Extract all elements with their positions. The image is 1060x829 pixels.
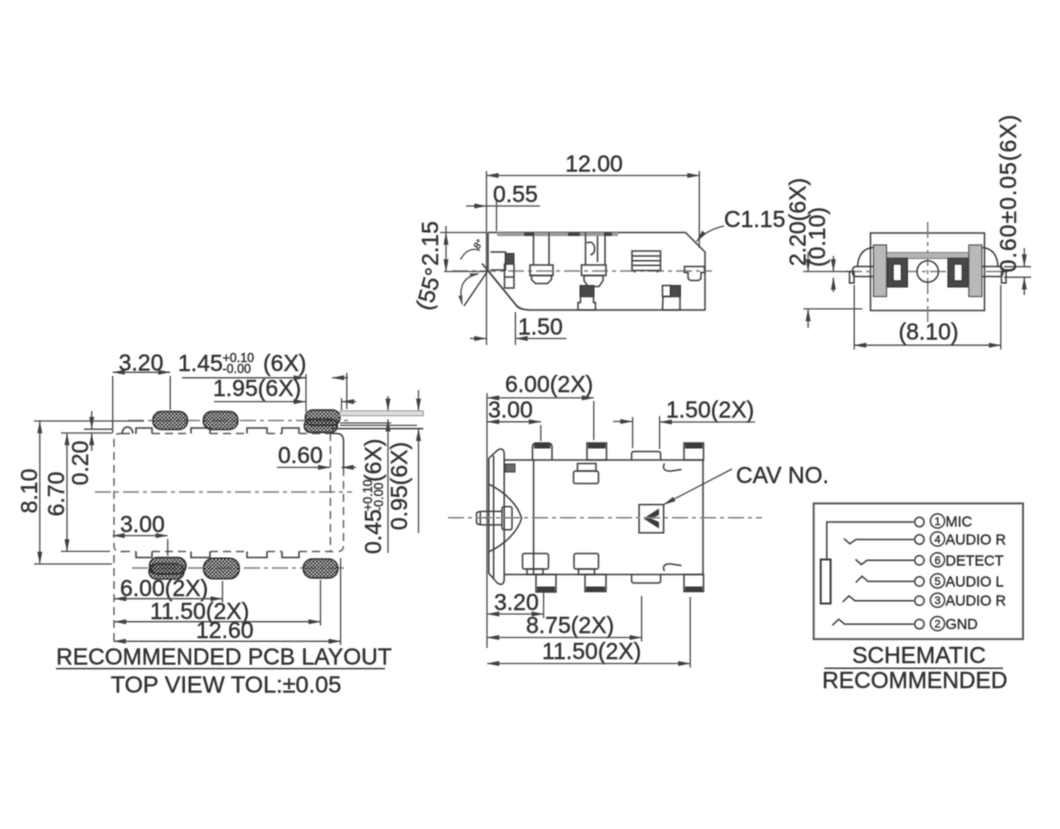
- side view: front contact lower body: [505, 264, 515, 288]
- bottom view: barrel tip left cap line: [479, 512, 481, 525]
- dim 3.20 dimension line: [113, 371, 171, 373]
- bottom view: barrel tip collar: [502, 507, 512, 530]
- pcb outline bottom castellation bumps: [136, 552, 299, 558]
- dim 2.20(6X) extension bottom (body bottom left): [803, 308, 862, 310]
- side view: pin 2 tip: [584, 276, 603, 287]
- svg-text:3.00: 3.00: [488, 397, 533, 423]
- bottom view: top pin 3 with dark cap: [684, 443, 704, 460]
- terminal circle pin2: [915, 619, 924, 628]
- schematic box: [814, 503, 1023, 639]
- dim 1.50 outside arrow left: [470, 338, 486, 340]
- end view: right contact slab: [969, 245, 982, 297]
- dim 11.50 dimension line: [114, 621, 320, 623]
- svg-text:-0.00: -0.00: [372, 482, 386, 511]
- svg-text:8.10: 8.10: [16, 469, 42, 514]
- svg-text:1.50: 1.50: [518, 314, 563, 340]
- dim 12.00 extension line left: [486, 171, 488, 345]
- pcb outline bottom edge dashed baseline: [122, 551, 337, 553]
- bottom view: top pin 2 with dark cap: [587, 443, 607, 460]
- pcb centerline dash-dot: [95, 491, 352, 493]
- pad top 2: [203, 412, 238, 430]
- side view: bottom pin 2 body: [663, 297, 681, 311]
- bottom view: inner contact rects top: [578, 464, 597, 472]
- wire pin2 with spring hook: [832, 619, 913, 625]
- dim 3.20 dimension line (bottom view): [487, 613, 543, 615]
- svg-text:1: 1: [934, 516, 940, 528]
- bottom view: cavity leader line: [664, 469, 732, 505]
- bottom view: entry cone curve: [489, 484, 522, 552]
- pin4 number circle: [930, 532, 944, 546]
- pad3 gray band to right (0.45 reference): [340, 411, 423, 416]
- svg-text:0.20: 0.20: [67, 441, 93, 486]
- dim 0.45 vertical dimension line with arrows: [387, 396, 389, 411]
- dim 8.10 dimension line: [39, 421, 41, 564]
- dim 3.00 dimension line (bottom view): [487, 421, 541, 423]
- dim 2.15 top extension: [440, 232, 486, 234]
- svg-text:2: 2: [934, 619, 940, 631]
- pad3 reference line D: [340, 424, 417, 426]
- dim 0.60 outside arrow right: [342, 466, 356, 468]
- pad3 reference line C: [340, 422, 391, 424]
- end view: right solder pin: [982, 267, 1004, 277]
- dim (55°) angle arc: [461, 274, 478, 304]
- svg-text:GND: GND: [946, 617, 978, 633]
- bottom view: bottom pin 3: [684, 575, 704, 592]
- title divider line: [825, 667, 1004, 669]
- svg-text:MIC: MIC: [946, 515, 973, 531]
- bottom view: barrel tip body: [477, 511, 503, 524]
- wire pin3 with spring hook: [843, 596, 914, 602]
- wire pin6 with contact hook: [856, 559, 914, 564]
- bottom view: top pin 1: [533, 443, 553, 460]
- terminal circle pin3: [915, 596, 924, 605]
- angle arc 8 deg draft mark: [461, 249, 481, 259]
- dim 3.20 extension lines (bottom view): [543, 592, 545, 618]
- pad3 reference line E: [332, 428, 423, 430]
- svg-text:12.60: 12.60: [196, 617, 254, 643]
- svg-text:1.50(2X): 1.50(2X): [666, 397, 754, 423]
- dim 8.10 extension lines: [34, 420, 144, 422]
- bottom view: cavity triangle marker: [644, 509, 660, 529]
- svg-text:6: 6: [934, 555, 940, 567]
- dim 8.75 extension right (bottom view): [641, 596, 643, 642]
- dim 11.50 extension right (bottom view): [689, 597, 691, 668]
- svg-text:3.00: 3.00: [120, 511, 165, 537]
- end view: top gray bridge band: [886, 253, 969, 259]
- pcb outline top castellation bumps: [136, 428, 299, 434]
- end view: jack barrel circle: [917, 261, 938, 282]
- side view: bottom pin 1 body: [578, 297, 596, 311]
- bottom view: body seam line: [533, 460, 535, 575]
- side view: bottom pin 2 dark pad: [671, 286, 681, 297]
- dim 12.60 extension right: [340, 558, 342, 645]
- wire pin1 to sleeve: [827, 522, 914, 559]
- dim 1.95 dimension line: [214, 401, 306, 403]
- dim 12.00 extension line right: [698, 171, 700, 248]
- svg-text:0.60±0.05(6X): 0.60±0.05(6X): [995, 114, 1021, 273]
- dim 1.50 dimension line / underline (bottom view): [660, 421, 755, 423]
- dim 3.00 extension right: [167, 539, 169, 556]
- pad bottom 2: [204, 558, 240, 579]
- dim (55°) arc arrowhead lower: [458, 295, 462, 305]
- end view: right bend arc: [983, 248, 999, 267]
- svg-text:2.15: 2.15: [417, 221, 443, 266]
- dim 6.00 dimension line (bottom view): [487, 397, 594, 399]
- svg-text:5: 5: [934, 576, 940, 588]
- pcb outline dashed body right edge lower: [334, 468, 344, 552]
- svg-text:SCHEMATIC: SCHEMATIC: [852, 642, 986, 668]
- svg-text:11.50(2X): 11.50(2X): [542, 638, 641, 664]
- svg-text:4: 4: [934, 534, 940, 546]
- dim 0.20 outside arrows: [91, 411, 93, 429]
- svg-text:RECOMMENDED: RECOMMENDED: [822, 667, 1007, 693]
- bottom view: inner rect small left: [506, 464, 516, 472]
- svg-text:(6X): (6X): [360, 439, 386, 482]
- svg-text:1.45: 1.45: [178, 350, 223, 376]
- svg-text:12.00: 12.00: [565, 151, 623, 177]
- dim 2.20(6X) dimension line with outside arrows: [807, 252, 809, 271]
- dim 6.70 extension lines: [61, 432, 112, 434]
- dim 0.60 extension lines right: [1004, 266, 1031, 268]
- svg-text:RECOMMENDED PCB LAYOUT: RECOMMENDED PCB LAYOUT: [56, 644, 392, 670]
- end view: left pin bent tip: [850, 272, 855, 284]
- dim 1.45 dimension leader: [182, 377, 306, 379]
- side view: pin 1 tip: [532, 276, 552, 284]
- side view: spring stack box: [632, 251, 661, 271]
- schematic: jack sleeve bar: [821, 560, 831, 604]
- bottom view: flange inner line: [493, 456, 495, 579]
- dim 3.00 dimension line: [113, 535, 168, 537]
- svg-text:DETECT: DETECT: [946, 553, 1004, 569]
- dim 1.50 extension line right: [514, 312, 516, 345]
- dim 3.20 extension lines: [112, 376, 114, 433]
- side view: centerline (dash-dot): [452, 270, 712, 272]
- svg-text:C1.15: C1.15: [724, 206, 785, 232]
- end view: left contact slab: [874, 245, 887, 297]
- svg-text:(0.10): (0.10): [804, 207, 830, 267]
- terminal circle pin4: [915, 535, 924, 544]
- terminal circle pin5: [915, 577, 924, 586]
- svg-text:0.45: 0.45: [360, 509, 386, 554]
- pin6 number circle: [930, 553, 944, 567]
- dim 0.60 dimension line: [277, 466, 330, 468]
- dim (8.10) dimension line: [854, 344, 1001, 346]
- dim 6.00 extension lines (bottom view): [486, 393, 488, 648]
- bottom view: bottom hook detail: [663, 564, 681, 571]
- dim 6.70 dimension line: [66, 433, 68, 551]
- pcb outline top edge dashed baseline: [122, 433, 332, 435]
- terminal circle pin1: [915, 517, 924, 526]
- side view: top post pin 2: [586, 233, 606, 266]
- dim 1.45 extension lines: [305, 374, 307, 412]
- side view: front contact block: [491, 252, 506, 270]
- side view: rear cup contact: [685, 267, 705, 281]
- bottom view: top hook detail: [663, 464, 681, 472]
- dim C1.15 leader: [697, 226, 725, 242]
- bottom view: bottom pin 2 foot: [585, 575, 606, 592]
- side view: bottom pin 1 dark pad: [580, 286, 594, 297]
- dim 1.95 outside arrow right: [342, 401, 356, 403]
- side view: front contact dark insert: [506, 254, 515, 265]
- end view: right pin bent tip: [1002, 272, 1007, 284]
- dim (55°) arc arrowhead upper: [470, 273, 480, 277]
- end view: right contact clip: [948, 258, 968, 287]
- dim 1.50 dimension line / text underline: [516, 338, 567, 340]
- pcb right centerline short: [128, 420, 352, 422]
- bottom view: top pin 1 dark cap: [534, 444, 551, 449]
- side view: top post pin 1: [534, 233, 550, 266]
- pin3 number circle: [930, 593, 944, 607]
- pcb left edge extension dashed down: [113, 555, 115, 645]
- end view: left solder pin: [853, 267, 875, 277]
- pin5 number circle: [930, 574, 944, 588]
- side view: pin 1 foot: [530, 265, 553, 276]
- svg-text:0.95(6X): 0.95(6X): [386, 442, 412, 530]
- dim 8.75 dimension line (bottom view): [487, 637, 641, 639]
- dim 0.45 tol text rotated: [360, 439, 386, 554]
- dim 11.50 dimension line (bottom view): [487, 663, 690, 665]
- side view: bottom pin 2 light pad: [663, 286, 671, 297]
- bottom view: top shallow tab: [632, 452, 661, 461]
- end view: left contact clip: [888, 258, 908, 287]
- svg-text:3: 3: [934, 595, 940, 607]
- pad top 3 (corner, doubled): [305, 410, 340, 426]
- dim 12.60 dimension line: [114, 640, 341, 642]
- dim 12.00 dimension line: [487, 175, 700, 177]
- svg-text:(8.10): (8.10): [898, 319, 958, 345]
- svg-text:AUDIO L: AUDIO L: [946, 574, 1004, 590]
- dim 0.55 dimension line with outside arrow: [466, 205, 486, 207]
- svg-text:TOP VIEW TOL:±0.05: TOP VIEW TOL:±0.05: [111, 671, 342, 697]
- svg-text:1.95(6X): 1.95(6X): [213, 375, 301, 401]
- svg-text:6.70: 6.70: [43, 472, 69, 517]
- dim (0.10) dimension arrows: [832, 256, 834, 271]
- bottom view: inner contact rects bottom 2: [574, 554, 599, 570]
- svg-text:(55°: (55°: [411, 265, 447, 313]
- terminal circle pin6: [915, 556, 924, 565]
- dim 1.95 extension right: [341, 398, 343, 410]
- bottom view: bottom pin 2 neck: [579, 569, 595, 575]
- dim 6.00 dimension line: [114, 598, 222, 600]
- side view: stack feet ticks: [634, 271, 636, 273]
- pcb outline top hump: [122, 427, 133, 434]
- bottom view: bottom pin 1 neck: [527, 569, 543, 575]
- side view: pin 2 inner curl: [587, 242, 595, 255]
- bottom view: front flange strip: [489, 449, 504, 584]
- dim 6.00 extension right: [222, 581, 224, 603]
- svg-text:CAV NO.: CAV NO.: [736, 462, 829, 488]
- bottom view: bottom shallow tab: [632, 575, 661, 584]
- svg-text:3.20: 3.20: [119, 350, 164, 376]
- wire pin5 with spring hook: [856, 576, 914, 582]
- svg-text:AUDIO R: AUDIO R: [946, 594, 1006, 610]
- pad bottom 3: [303, 559, 338, 578]
- bottom view: bottom pin 1 foot: [536, 575, 556, 593]
- bottom view: cavity square: [639, 505, 664, 533]
- side view: mouth inner diagonal: [464, 271, 488, 307]
- svg-text:8.75(2X): 8.75(2X): [526, 612, 614, 638]
- dim 3.00 extension right (bottom view): [540, 425, 542, 441]
- side view: connector body outline: [488, 233, 705, 311]
- svg-text:AUDIO R: AUDIO R: [946, 533, 1006, 549]
- pad bottom 1 (doubled): [150, 558, 187, 575]
- side view: shell lip dark ticks: [524, 233, 534, 236]
- svg-text:6.00(2X): 6.00(2X): [505, 371, 593, 397]
- bottom view: main body outline: [504, 460, 703, 575]
- dim 2.15 bottom extension (centerline left): [444, 271, 487, 273]
- dim 0.55 extension line: [496, 200, 498, 231]
- end view: body rectangle: [871, 233, 985, 311]
- title underline: [56, 668, 385, 670]
- pcb outline dashed body left edge: [114, 434, 124, 552]
- dim 2.15 dimension line: [445, 233, 447, 272]
- svg-text:0.55: 0.55: [493, 181, 538, 207]
- bottom view: inner contact rects bottom 1: [523, 554, 549, 570]
- end view: vertical centerline: [927, 222, 929, 322]
- dim 0.95 vertical dimension line with arrows: [418, 390, 420, 411]
- end view: horizontal centerline: [846, 271, 1008, 273]
- dim (8.10) extension lines: [853, 285, 855, 350]
- side view: mouth flare diagonal (lower-left): [482, 264, 529, 311]
- side view: top metal shell lip (gray band): [497, 233, 618, 237]
- dim 2.20(6X) extension top (pin centerline left): [803, 271, 852, 273]
- svg-text:-0.00: -0.00: [223, 362, 252, 376]
- pad top 1: [153, 412, 188, 430]
- end view: left bend arc: [858, 248, 874, 267]
- wire pin4 with contact hook: [844, 539, 914, 544]
- dim 1.50 extension lines (bottom view): [632, 417, 634, 448]
- side view: pin 2 foot: [582, 265, 607, 276]
- dim 0.60 arrows: [1023, 248, 1025, 266]
- dim 0.20 extension line: [84, 428, 112, 430]
- bottom view: centerline dash-dot: [448, 517, 762, 519]
- dim 1.50 outside arrow left (bottom view): [613, 421, 632, 423]
- svg-text:0.60: 0.60: [278, 442, 323, 468]
- pcb outline top-right solid corner: [332, 434, 344, 470]
- pin2 number circle: [930, 617, 944, 631]
- dim 11.50 extension right: [320, 580, 322, 626]
- pin1 number circle: [930, 514, 944, 528]
- pcb bottom pads centerline: [132, 567, 344, 569]
- dim 1.45 outside arrow right: [332, 377, 348, 379]
- pcb right inner dashed line: [329, 433, 331, 552]
- svg-text:(6X): (6X): [263, 350, 306, 376]
